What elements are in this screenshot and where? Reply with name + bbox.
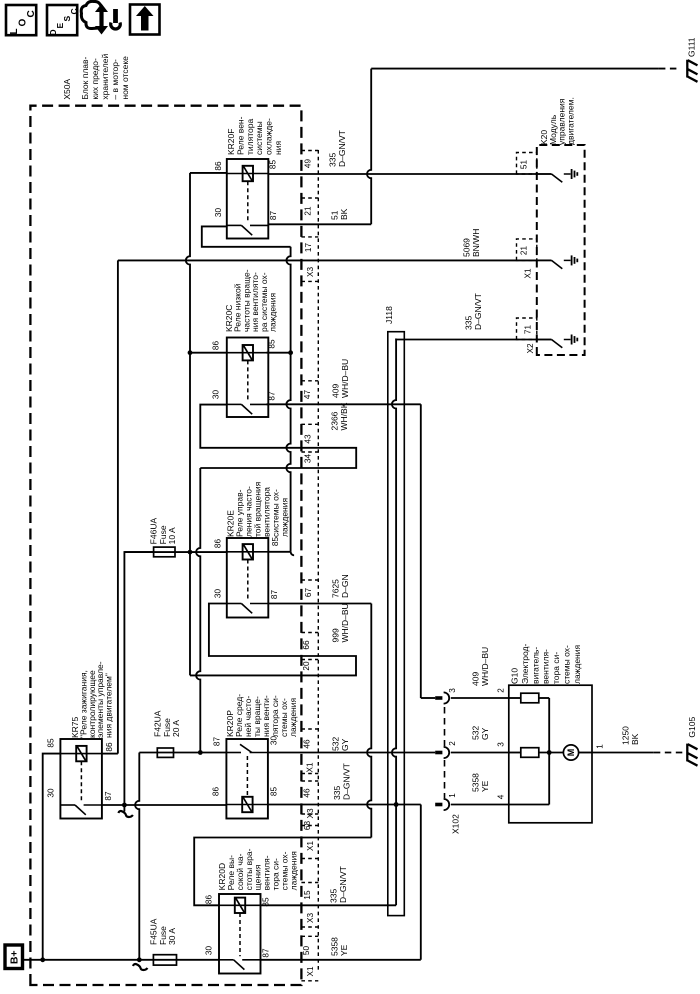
svg-text:1250: 1250 bbox=[621, 726, 631, 745]
wire KR20F-30 / KR20C-85 / KR20E-85 riser bbox=[286, 247, 290, 552]
relay KR20D pin labels bbox=[205, 895, 271, 958]
svg-text:68: 68 bbox=[303, 821, 312, 831]
svg-text:7625: 7625 bbox=[331, 579, 341, 598]
label KR20E name bbox=[226, 481, 290, 537]
label F45UA bbox=[149, 918, 178, 945]
svg-text:87: 87 bbox=[104, 791, 113, 801]
junction KR20C-85 bbox=[288, 350, 293, 355]
svg-text:4: 4 bbox=[496, 794, 505, 799]
wire 2366 return pin 34 riser to F42UA output bbox=[196, 468, 200, 753]
svg-text:E: E bbox=[55, 23, 65, 29]
svg-text:ких предо-: ких предо- bbox=[90, 58, 100, 100]
label K20 name bbox=[539, 97, 575, 145]
wire J118 inner 335 D-GN/VT bbox=[392, 339, 396, 906]
svg-text:85: 85 bbox=[267, 339, 276, 349]
svg-text:87: 87 bbox=[213, 737, 222, 747]
svg-text:30: 30 bbox=[205, 946, 214, 956]
wire 51 BK KR20F-87 to ground G111 bbox=[367, 69, 371, 225]
junction coil bus / KR20C-86 bbox=[188, 350, 193, 355]
relay KR20C (fan low speed relay) bbox=[227, 338, 268, 418]
svg-text:D–GN/VT: D–GN/VT bbox=[341, 763, 351, 800]
icon arrow-up bbox=[130, 5, 160, 35]
svg-text:X1: X1 bbox=[306, 966, 315, 976]
svg-text:вентиля-: вентиля- bbox=[541, 649, 551, 684]
svg-text:D: D bbox=[48, 29, 58, 35]
label KR20C name bbox=[224, 269, 278, 332]
svg-text:тора си-: тора си- bbox=[551, 652, 561, 684]
svg-text:X1: X1 bbox=[306, 841, 315, 851]
wire F46UA feed riser bbox=[124, 552, 153, 805]
G10 internal: resistor (low) bbox=[509, 752, 521, 754]
svg-text:5358: 5358 bbox=[471, 773, 481, 792]
svg-text:2366: 2366 bbox=[330, 411, 340, 430]
wire KR75-86 to 5069 run bbox=[102, 753, 118, 755]
junction F42UA feed at B+ bus bbox=[137, 957, 142, 962]
svg-text:1: 1 bbox=[448, 793, 457, 798]
svg-text:S: S bbox=[62, 16, 72, 22]
svg-text:2: 2 bbox=[448, 741, 457, 746]
svg-text:вигатель-: вигатель- bbox=[530, 647, 540, 684]
wire KR20C-85 bbox=[266, 352, 290, 354]
wire F42UA feed from B+ bus bbox=[135, 753, 139, 960]
svg-text:3: 3 bbox=[448, 688, 457, 693]
svg-text:B+: B+ bbox=[9, 950, 21, 964]
svg-text:O: O bbox=[18, 19, 29, 27]
wire 5069 BN/WH to K20 X1-21 bbox=[118, 259, 537, 261]
G10 internal: bypass links bbox=[548, 698, 550, 805]
svg-text:BK: BK bbox=[339, 208, 349, 220]
svg-text:G105: G105 bbox=[687, 717, 697, 738]
connector pin boxes caps bbox=[301, 151, 318, 981]
wire 5069 BN/WH riser bbox=[117, 260, 119, 753]
svg-text:66: 66 bbox=[302, 640, 311, 650]
svg-text:87: 87 bbox=[270, 590, 279, 600]
svg-text:46: 46 bbox=[302, 739, 311, 749]
battery feed B+ bbox=[5, 945, 23, 969]
relay KR20F (cooling fan relay) bbox=[227, 159, 268, 239]
junction F46UA bus / coil bus bbox=[188, 550, 193, 555]
wire 20 loop bbox=[190, 604, 356, 676]
svg-text:30: 30 bbox=[214, 208, 223, 218]
svg-text:87: 87 bbox=[267, 391, 276, 401]
svg-text:– в мотор-: – в мотор- bbox=[110, 59, 120, 100]
svg-text:лаждения: лаждения bbox=[288, 697, 298, 737]
svg-text:WH/BK: WH/BK bbox=[339, 402, 349, 430]
svg-text:999: 999 bbox=[331, 628, 341, 642]
svg-text:67: 67 bbox=[304, 588, 313, 598]
svg-text:X3: X3 bbox=[306, 913, 315, 923]
wire F46UA to KR20E-86 bbox=[124, 551, 226, 553]
icon DESC bbox=[47, 5, 77, 35]
svg-text:ном отсеке: ном отсеке bbox=[120, 56, 130, 100]
wire KR20D-87 5358 YE bbox=[261, 959, 421, 961]
junction KR75-87 / F46UA feed bbox=[122, 803, 127, 808]
relay KR20E (fan speed control relay) bbox=[227, 538, 268, 618]
svg-text:BN/WH: BN/WH bbox=[471, 229, 481, 257]
G10 pin labels bbox=[496, 688, 604, 800]
svg-text:85: 85 bbox=[270, 787, 279, 797]
icon LOC bbox=[6, 5, 36, 35]
svg-text:C: C bbox=[26, 10, 37, 17]
relay KR20P pin labels bbox=[211, 736, 278, 797]
svg-text:50: 50 bbox=[302, 946, 311, 956]
relay KR75 pin labels bbox=[46, 738, 114, 801]
svg-text:X3: X3 bbox=[306, 267, 315, 277]
wire X102-1 to G10-4 bbox=[451, 804, 509, 806]
label KR20F name bbox=[226, 116, 283, 155]
svg-text:51: 51 bbox=[330, 210, 340, 220]
fuse block X50A (dashed outline) bbox=[30, 106, 301, 985]
K20 internal switch to ground (pin 21) bbox=[537, 259, 552, 261]
svg-text:хранителей: хранителей bbox=[100, 54, 110, 100]
fuse block connector face X1/X3 (fine dashed line) bbox=[317, 150, 319, 972]
svg-text:5069: 5069 bbox=[462, 238, 472, 257]
svg-text:лаждения: лаждения bbox=[572, 644, 582, 684]
svg-text:86: 86 bbox=[212, 341, 221, 351]
wire to X102-1 and KR20D-87 riser bbox=[420, 805, 422, 960]
K20 pin labels bbox=[519, 160, 535, 354]
wire J118 to K20 X2-71 bbox=[395, 338, 397, 340]
X102 pin labels bbox=[448, 688, 457, 798]
motor assembly G10 (box) bbox=[509, 685, 592, 823]
svg-text:20 A: 20 A bbox=[171, 720, 181, 737]
fuse F42UA bbox=[139, 752, 226, 754]
svg-text:409: 409 bbox=[331, 384, 341, 398]
wire KR20E-87 7625 D-GN to KR20D-86 bbox=[268, 603, 371, 605]
svg-text:J118: J118 bbox=[384, 306, 394, 324]
K20 internal switch to ground (pin 51) bbox=[537, 173, 552, 175]
wire KR20F-30 jog bbox=[202, 226, 291, 246]
wire KR20D-85 335 D-GN/VT to J118 bbox=[261, 904, 397, 906]
relay KR20D (fan high speed relay) bbox=[219, 894, 261, 974]
connector X102 terminals bbox=[435, 696, 442, 700]
wire 409 WH/D-BU down to X102-3 bbox=[420, 404, 422, 698]
K20 pin box 51 bbox=[517, 153, 537, 175]
svg-text:X1: X1 bbox=[305, 762, 314, 772]
svg-text:5358: 5358 bbox=[330, 937, 340, 956]
X102 dashed links bbox=[444, 707, 446, 746]
svg-text:Электрод-: Электрод- bbox=[520, 644, 530, 684]
wire B+ bus to fuse F45UA and KR20D-30 bbox=[23, 959, 220, 961]
continuation squiggle B+ bus bbox=[133, 964, 148, 970]
wire coil feed bus (KR20F-86 / KR20C-86 / pin 20) bbox=[186, 173, 190, 676]
svg-text:30: 30 bbox=[212, 390, 221, 400]
svg-text:86: 86 bbox=[214, 539, 223, 549]
connector J118 bbox=[388, 332, 405, 916]
label X50A bbox=[62, 54, 130, 100]
relay KR75 (ignition relay) bbox=[60, 739, 102, 819]
svg-text:G10: G10 bbox=[510, 668, 520, 684]
wire KR20C-87 409 WH/D-BU bbox=[266, 403, 420, 405]
svg-text:X50A: X50A bbox=[62, 78, 72, 99]
svg-text:85: 85 bbox=[271, 537, 280, 547]
wire G10-1 1250 BK to G105 bbox=[579, 752, 592, 754]
svg-text:51: 51 bbox=[519, 160, 528, 170]
svg-text:стемы ох-: стемы ох- bbox=[562, 645, 572, 684]
svg-text:20: 20 bbox=[302, 661, 311, 671]
svg-text:34: 34 bbox=[303, 454, 312, 464]
svg-text:YE: YE bbox=[480, 780, 490, 792]
svg-text:WH/D–BU: WH/D–BU bbox=[340, 603, 350, 642]
label F46UA bbox=[149, 518, 178, 545]
svg-text:86: 86 bbox=[105, 742, 114, 752]
junction G10 internal bbox=[547, 750, 552, 755]
svg-text:ния двигателем": ния двигателем" bbox=[104, 673, 114, 738]
icon service/navigation bbox=[81, 1, 120, 34]
junction pin34 riser at F42UA output bbox=[198, 750, 203, 755]
svg-text:D–GN/VT: D–GN/VT bbox=[337, 130, 347, 167]
svg-text:71: 71 bbox=[523, 325, 532, 335]
svg-text:335: 335 bbox=[329, 889, 339, 903]
junction B+ branch bbox=[40, 957, 45, 962]
svg-text:X102: X102 bbox=[451, 814, 461, 834]
wire KR20P-30 532 GY to X102-2 bbox=[268, 752, 435, 754]
svg-text:10 A: 10 A bbox=[167, 527, 177, 544]
G10 internal: resistor (high) bbox=[509, 697, 521, 699]
relay KR20E pin labels bbox=[214, 537, 280, 600]
svg-text:86: 86 bbox=[214, 161, 223, 171]
svg-text:лаждения: лаждения bbox=[288, 851, 298, 891]
wire KR20F-85 335 D-GN/VT to K20 X1-51 bbox=[268, 173, 537, 175]
svg-text:L: L bbox=[9, 28, 20, 34]
svg-text:GY: GY bbox=[480, 727, 490, 740]
wire KR20C-30 jog / 2366 WH-BK pin 43 bbox=[265, 404, 267, 406]
svg-text:D–GN: D–GN bbox=[340, 574, 350, 598]
label KR75 name bbox=[70, 661, 114, 738]
svg-text:2: 2 bbox=[496, 688, 505, 693]
svg-text:532: 532 bbox=[471, 726, 481, 740]
relay KR20F pin labels bbox=[214, 160, 278, 221]
svg-text:G111: G111 bbox=[687, 37, 697, 57]
svg-text:3: 3 bbox=[496, 742, 505, 747]
motor M bbox=[563, 745, 578, 760]
svg-text:47: 47 bbox=[303, 390, 312, 400]
svg-text:X1: X1 bbox=[523, 268, 532, 278]
svg-text:87: 87 bbox=[269, 211, 278, 221]
svg-text:43: 43 bbox=[303, 434, 312, 444]
fuse F45UA bbox=[153, 955, 176, 965]
svg-text:1: 1 bbox=[595, 744, 604, 749]
svg-text:30: 30 bbox=[47, 788, 56, 798]
svg-text:D–GN/VT: D–GN/VT bbox=[338, 866, 348, 903]
svg-text:21: 21 bbox=[519, 246, 528, 256]
svg-text:49: 49 bbox=[303, 159, 312, 169]
svg-text:335: 335 bbox=[328, 153, 338, 167]
svg-text:15: 15 bbox=[303, 890, 312, 900]
svg-text:GY: GY bbox=[340, 738, 350, 751]
svg-text:17: 17 bbox=[304, 243, 313, 253]
K20 internal switch to ground (pin 71) bbox=[537, 339, 552, 341]
module K20 (dashed box) bbox=[537, 145, 585, 355]
relay KR20C pin labels bbox=[212, 339, 277, 401]
svg-text:WH/D–BU: WH/D–BU bbox=[480, 647, 490, 686]
svg-text:WH/D–BU: WH/D–BU bbox=[340, 359, 350, 398]
wire KR75-87 to KR20P-86 bbox=[102, 804, 226, 806]
svg-text:D–GN/VT: D–GN/VT bbox=[473, 293, 483, 330]
wire KR20C-86 bbox=[190, 352, 227, 354]
svg-text:Блок плав-: Блок плав- bbox=[80, 56, 90, 99]
wire name labels bbox=[328, 130, 641, 956]
svg-text:21: 21 bbox=[303, 206, 312, 216]
svg-text:46: 46 bbox=[302, 788, 311, 798]
svg-text:30: 30 bbox=[214, 589, 223, 599]
svg-text:BK: BK bbox=[630, 733, 640, 745]
svg-text:87: 87 bbox=[262, 948, 271, 958]
label KR20D name bbox=[217, 848, 298, 890]
junction at J118 inner wire bbox=[394, 802, 399, 807]
svg-text:335: 335 bbox=[332, 786, 342, 800]
svg-text:лаждения: лаждения bbox=[268, 292, 278, 332]
svg-text:YE: YE bbox=[339, 944, 349, 956]
label G10 name bbox=[510, 644, 582, 684]
continuation squiggle KR75-87 circuit bbox=[123, 805, 125, 812]
svg-text:лаждения: лаждения bbox=[280, 497, 290, 537]
svg-text:30 A: 30 A bbox=[167, 928, 177, 945]
K20 pin box 71 bbox=[517, 318, 537, 340]
fuse F46UA bbox=[154, 547, 175, 557]
relay KR20P (fan medium speed relay) bbox=[226, 739, 268, 819]
svg-text:86: 86 bbox=[211, 787, 220, 797]
svg-text:86: 86 bbox=[205, 895, 214, 905]
wire X102-2 to G10-3 bbox=[451, 752, 509, 754]
svg-text:C: C bbox=[69, 8, 79, 14]
svg-text:двигателем.: двигателем. bbox=[565, 97, 575, 145]
label F42UA bbox=[153, 710, 182, 737]
svg-text:409: 409 bbox=[471, 672, 481, 686]
svg-text:532: 532 bbox=[331, 737, 341, 751]
svg-text:85: 85 bbox=[46, 738, 55, 748]
wire KR20P-85 335 D-GN/VT to J118 bbox=[268, 804, 421, 806]
svg-text:335: 335 bbox=[464, 316, 474, 330]
svg-text:85: 85 bbox=[268, 160, 277, 170]
ground G105 bbox=[686, 744, 688, 762]
svg-text:X3: X3 bbox=[306, 808, 315, 818]
wire X102-3 to G10-2 bbox=[451, 697, 509, 699]
X50A connector pin labels bbox=[302, 159, 315, 977]
svg-text:ния: ния bbox=[273, 141, 283, 155]
ground G111 bbox=[686, 60, 688, 78]
K20 pin box 21 bbox=[517, 239, 537, 261]
svg-text:M: M bbox=[566, 749, 576, 757]
wire B+ to KR75-85 bbox=[43, 754, 61, 960]
label KR20P name bbox=[225, 694, 298, 737]
svg-text:X2: X2 bbox=[526, 343, 535, 353]
